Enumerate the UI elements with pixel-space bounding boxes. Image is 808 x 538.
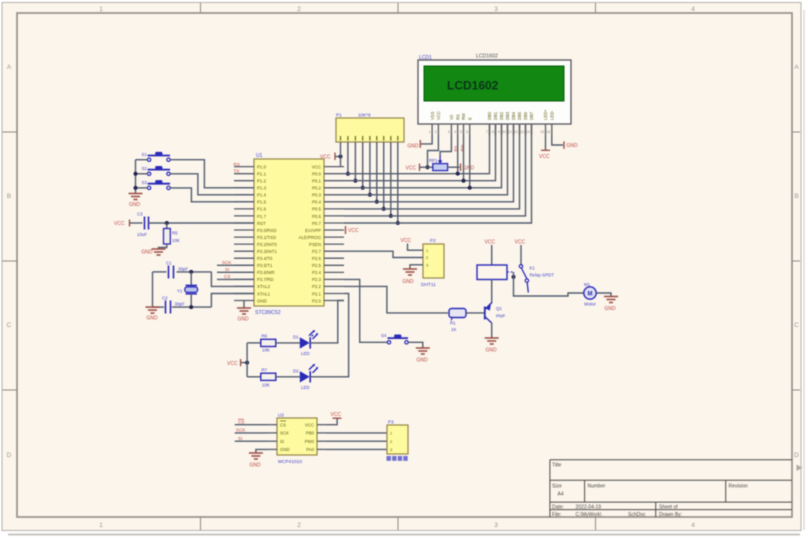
ground DHT11 xyxy=(402,269,417,285)
svg-text:DB7: DB7 xyxy=(529,111,534,120)
svg-text:Motor: Motor xyxy=(584,302,596,307)
svg-text:PA0: PA0 xyxy=(306,447,314,452)
svg-text:10uF: 10uF xyxy=(137,232,147,237)
LCD pin stubs and numbers xyxy=(429,124,552,135)
svg-text:P1.0: P1.0 xyxy=(257,164,267,169)
wire LCD VCC to pot rail xyxy=(428,135,439,167)
junction dot LED rail xyxy=(245,361,249,365)
wire buttons left rail to ground xyxy=(136,160,148,193)
svg-text:RW: RW xyxy=(461,113,466,120)
resistor R7 10K xyxy=(261,368,276,388)
resistor R5 10K xyxy=(164,223,180,244)
wire RW to P0.1 row xyxy=(463,135,465,181)
svg-text:3: 3 xyxy=(448,130,450,134)
wire coil to Q1 emitter xyxy=(491,280,493,304)
display module LCD1 body xyxy=(418,60,571,124)
svg-text:S2: S2 xyxy=(142,166,148,171)
svg-text:XTAL2: XTAL2 xyxy=(257,284,271,289)
wire motor to ground xyxy=(596,293,611,297)
wire D2 to P2.1 xyxy=(310,294,348,377)
svg-text:P1: P1 xyxy=(336,113,342,118)
svg-text:P3.0/RXD: P3.0/RXD xyxy=(257,228,277,233)
svg-text:PW0: PW0 xyxy=(305,439,315,444)
wire RS to P0.0 row xyxy=(457,135,459,174)
svg-text:DB3: DB3 xyxy=(505,111,510,120)
svg-text:C2: C2 xyxy=(162,296,168,301)
svg-text:SCK: SCK xyxy=(280,431,289,436)
wire LED rail xyxy=(246,343,248,377)
svg-text:P0.7: P0.7 xyxy=(312,221,322,226)
resistor R6 10K xyxy=(261,334,276,353)
svg-text:P3.2/INT0: P3.2/INT0 xyxy=(257,242,277,247)
svg-text:30pF: 30pF xyxy=(178,267,188,272)
svg-text:4: 4 xyxy=(454,130,456,134)
svg-text:GND: GND xyxy=(129,202,141,208)
svg-text:Size: Size xyxy=(552,484,562,490)
svg-text:P2.3: P2.3 xyxy=(312,277,322,282)
wire S3 to P1.5 xyxy=(170,188,254,202)
svg-text:C:\MyWork\: C:\MyWork\ xyxy=(576,512,603,518)
svg-text:GND: GND xyxy=(604,306,616,312)
svg-text:XTAL1: XTAL1 xyxy=(257,291,271,296)
digital pot U2 body xyxy=(277,418,317,455)
wire R1 to Q1 base xyxy=(466,312,485,314)
svg-text:10K: 10K xyxy=(262,383,270,388)
svg-text:P3.3/INT1: P3.3/INT1 xyxy=(257,249,277,254)
ground crystal rail xyxy=(146,307,160,321)
capacitor C3 10uF xyxy=(137,212,149,238)
power port VCC U2 xyxy=(333,417,342,419)
crystal Y1 xyxy=(177,272,198,307)
capacitor C1 30pF xyxy=(166,261,188,279)
svg-text:VSS: VSS xyxy=(430,111,435,120)
svg-text:GND: GND xyxy=(237,317,249,323)
svg-text:P1.7: P1.7 xyxy=(257,214,267,219)
wire E to P0.2 row xyxy=(469,135,471,188)
svg-text:4: 4 xyxy=(691,6,695,13)
svg-text:S3: S3 xyxy=(142,180,148,185)
relay switch K1 xyxy=(519,265,554,293)
svg-text:C: C xyxy=(794,322,799,329)
U1 left pins xyxy=(234,164,277,303)
sensor header P2 DHT11 body xyxy=(423,244,444,278)
wire VCC to U1 VCC pin xyxy=(340,157,342,167)
svg-text:GND: GND xyxy=(141,250,153,256)
wires pack pins to P0 bus xyxy=(348,142,398,223)
svg-text:VCC: VCC xyxy=(312,164,321,169)
junction dot buttons rail S2 xyxy=(134,172,138,176)
svg-text:2: 2 xyxy=(297,6,301,13)
svg-text:VCC: VCC xyxy=(406,165,417,171)
ground below R5 xyxy=(152,249,166,255)
svg-text:VCC: VCC xyxy=(485,240,496,246)
svg-text:DB6: DB6 xyxy=(523,111,528,120)
svg-text:3: 3 xyxy=(494,6,498,13)
svg-text:M1: M1 xyxy=(584,282,591,287)
svg-text:PSEN: PSEN xyxy=(309,242,321,247)
svg-text:A: A xyxy=(7,64,12,71)
svg-text:6: 6 xyxy=(466,130,468,134)
wire R7 to D2 xyxy=(276,376,300,378)
svg-text:Relay-SPDT: Relay-SPDT xyxy=(530,273,555,278)
potentiometer RP1 xyxy=(429,155,448,171)
svg-text:4: 4 xyxy=(691,522,695,529)
svg-text:R1: R1 xyxy=(450,321,456,326)
svg-text:P2: P2 xyxy=(430,238,436,243)
wire VCC to switch xyxy=(520,245,522,265)
svg-text:10K: 10K xyxy=(172,238,180,243)
svg-text:CS: CS xyxy=(280,423,286,428)
svg-text:P1.5: P1.5 xyxy=(257,200,267,205)
svg-text:9: 9 xyxy=(498,130,500,134)
wire XTAL1 connection xyxy=(211,294,254,308)
svg-text:VCC: VCC xyxy=(227,361,238,367)
svg-text:16: 16 xyxy=(546,130,550,134)
svg-text:R5: R5 xyxy=(172,231,178,236)
resistor pack P1 10K*9 xyxy=(336,118,404,142)
svg-text:SI: SI xyxy=(225,267,229,272)
junction dot VCC branch xyxy=(339,155,343,159)
svg-text:11: 11 xyxy=(508,130,512,134)
svg-text:GND: GND xyxy=(146,316,158,322)
svg-text:30pF: 30pF xyxy=(175,302,185,307)
svg-text:MCP41010: MCP41010 xyxy=(278,459,302,465)
svg-text:P0.1: P0.1 xyxy=(312,179,322,184)
svg-text:2022-04-19: 2022-04-19 xyxy=(576,505,602,511)
junction dot buttons rail S3 xyxy=(134,186,138,190)
svg-text:P0.6: P0.6 xyxy=(312,214,322,219)
wire VCC to DHT11 pin1 xyxy=(408,244,424,251)
op IC U1 STC89C52 body xyxy=(254,159,324,306)
svg-text:P2.1: P2.1 xyxy=(312,291,322,296)
wire C3 to RST xyxy=(149,222,255,224)
svg-text:DB2: DB2 xyxy=(499,111,504,120)
svg-text:SI: SI xyxy=(238,436,242,441)
svg-text:LCD1602: LCD1602 xyxy=(476,54,498,60)
LCD pin names xyxy=(430,109,555,120)
svg-text:EA/VPP: EA/VPP xyxy=(305,228,321,233)
svg-text:P1.3: P1.3 xyxy=(257,186,267,191)
svg-text:Y1: Y1 xyxy=(177,289,183,294)
svg-text:GND: GND xyxy=(463,165,475,171)
svg-text:P0.4: P0.4 xyxy=(312,200,322,205)
wire P2.7 to DHT11 pin2 xyxy=(344,251,423,257)
svg-text:P2.2: P2.2 xyxy=(312,284,322,289)
push button S2 xyxy=(142,166,171,176)
svg-text:VCC: VCC xyxy=(515,240,526,246)
svg-text:LED: LED xyxy=(301,385,310,390)
svg-text:SCK: SCK xyxy=(222,260,232,265)
svg-text:P0.2: P0.2 xyxy=(312,186,322,191)
svg-text:RP1: RP1 xyxy=(429,158,438,163)
svg-text:LED+: LED+ xyxy=(543,109,548,120)
wire XTAL2 connection xyxy=(211,272,254,287)
push button S1 xyxy=(142,152,171,162)
capacitor C2 30pF xyxy=(162,296,185,314)
junction dots P0 bus xyxy=(346,172,400,225)
U2 pins xyxy=(269,421,326,452)
wire DHT11 pin3 to ground xyxy=(410,265,423,269)
svg-text:P0.3: P0.3 xyxy=(312,193,322,198)
svg-text:2: 2 xyxy=(297,522,301,529)
svg-text:12: 12 xyxy=(514,130,518,134)
svg-text:GND: GND xyxy=(249,463,261,469)
svg-text:VCC: VCC xyxy=(436,111,441,120)
svg-text:VCC: VCC xyxy=(114,221,125,227)
wires U2 to header P3 xyxy=(325,433,387,450)
svg-text:GND: GND xyxy=(416,358,428,364)
svg-text:C3: C3 xyxy=(137,212,143,217)
svg-text:ALE/PROG: ALE/PROG xyxy=(299,235,322,240)
svg-text:8: 8 xyxy=(492,130,494,134)
svg-text:SCK: SCK xyxy=(236,428,246,433)
wire switch to motor xyxy=(514,272,585,296)
svg-text:P3.5/T1: P3.5/T1 xyxy=(257,263,273,268)
wire VCC to coil xyxy=(491,245,493,265)
wires P0.0-P0.7 to LCD DB0-DB7 xyxy=(344,125,532,223)
wire D1 to P2.0 xyxy=(310,301,344,343)
ground motor xyxy=(604,297,618,313)
wire S2 to P1.4 xyxy=(170,174,254,195)
svg-text:CS: CS xyxy=(238,419,244,424)
svg-text:VCC: VCC xyxy=(305,423,314,428)
LED D1 xyxy=(293,330,318,356)
svg-text:File:: File: xyxy=(552,512,561,518)
svg-text:P3.6/WR: P3.6/WR xyxy=(257,270,275,275)
svg-text:A4: A4 xyxy=(558,492,564,498)
svg-text:P3.4/T0: P3.4/T0 xyxy=(257,256,273,261)
LED D2 xyxy=(293,364,318,390)
svg-text:VCC: VCC xyxy=(331,412,342,418)
svg-text:DHT11: DHT11 xyxy=(421,282,436,288)
svg-text:P1.6: P1.6 xyxy=(257,207,267,212)
wire left rail crystal xyxy=(152,272,154,307)
svg-text:P2.5: P2.5 xyxy=(312,263,322,268)
svg-text:R7: R7 xyxy=(262,368,268,373)
svg-text:P3.7/RD: P3.7/RD xyxy=(257,277,274,282)
svg-text:DB5: DB5 xyxy=(517,111,522,120)
svg-text:U1: U1 xyxy=(256,153,263,159)
svg-text:1: 1 xyxy=(429,130,431,134)
header P3 body xyxy=(387,425,408,454)
ground S4 xyxy=(416,348,430,364)
relay dashed link xyxy=(507,271,514,273)
U1 right pins xyxy=(299,164,344,303)
junction dot pot rail xyxy=(426,165,430,169)
transistor Q1 PNP xyxy=(485,303,505,324)
junction dot crystal top xyxy=(189,270,193,274)
svg-text:P0.0: P0.0 xyxy=(312,172,322,177)
svg-text:D2: D2 xyxy=(293,369,299,374)
svg-text:D: D xyxy=(7,452,12,459)
svg-text:V0: V0 xyxy=(449,114,454,120)
svg-text:1: 1 xyxy=(99,6,103,13)
wire S1 to P1.3 xyxy=(170,160,254,188)
svg-text:7: 7 xyxy=(486,130,488,134)
svg-text:DB4: DB4 xyxy=(511,111,516,120)
svg-text:CS: CS xyxy=(224,274,230,279)
svg-text:VCC: VCC xyxy=(401,238,412,244)
svg-text:S4: S4 xyxy=(381,333,387,338)
svg-text:VCC: VCC xyxy=(320,155,331,161)
svg-text:GND: GND xyxy=(567,143,579,149)
svg-text:Revision: Revision xyxy=(729,484,748,490)
svg-text:P2.0: P2.0 xyxy=(312,298,322,303)
svg-text:P2.6: P2.6 xyxy=(312,256,322,261)
title block xyxy=(550,460,792,518)
svg-text:10: 10 xyxy=(502,130,506,134)
svg-text:B: B xyxy=(7,193,11,200)
svg-text:LED: LED xyxy=(301,351,310,356)
svg-text:VCC: VCC xyxy=(539,154,550,160)
svg-text:14: 14 xyxy=(526,130,530,134)
svg-text:K1: K1 xyxy=(530,266,536,271)
svg-text:GND: GND xyxy=(402,279,414,285)
svg-text:GND: GND xyxy=(485,348,497,354)
svg-text:10K: 10K xyxy=(262,348,270,353)
wire pack pin1 to VCC xyxy=(340,142,342,157)
svg-text:RS: RS xyxy=(455,114,460,120)
wire LED- to ground port xyxy=(552,135,563,145)
power port VCC at EA/VPP xyxy=(345,226,347,234)
svg-text:Sheet of: Sheet of xyxy=(659,505,678,511)
wire LED+ to VCC port xyxy=(545,135,547,150)
wire U2 GND xyxy=(256,449,269,453)
svg-text:U2: U2 xyxy=(278,413,284,418)
svg-text:GND: GND xyxy=(280,447,290,452)
svg-text:DB1: DB1 xyxy=(493,111,498,120)
junction node RST xyxy=(165,221,169,225)
push button S4 xyxy=(381,333,408,344)
resistor R1 1K xyxy=(449,309,466,333)
wire R5 to ground xyxy=(159,244,167,249)
svg-text:STC89C52: STC89C52 xyxy=(255,310,281,316)
svg-text:P2.4: P2.4 xyxy=(312,270,322,275)
svg-text:5: 5 xyxy=(460,130,462,134)
svg-text:1K: 1K xyxy=(451,327,456,332)
wire crystal bottom rail xyxy=(153,306,165,308)
svg-text:M: M xyxy=(588,292,593,298)
motor M1 xyxy=(584,282,597,307)
junction dot crystal bottom xyxy=(189,305,193,309)
svg-text:Title: Title xyxy=(552,463,561,469)
svg-text:DB0: DB0 xyxy=(487,111,492,120)
svg-text:B: B xyxy=(794,193,798,200)
svg-text:LED-: LED- xyxy=(550,110,555,120)
ground Q1 xyxy=(485,338,499,354)
svg-text:RX: RX xyxy=(234,162,240,167)
svg-text:D1: D1 xyxy=(293,335,299,340)
wire LCD VSS to ground port xyxy=(421,135,432,144)
header P3 caption squares xyxy=(387,456,408,461)
svg-text:Date:: Date: xyxy=(552,505,564,511)
svg-text:A: A xyxy=(794,64,799,71)
svg-text:S1: S1 xyxy=(142,152,148,157)
power port VCC reset xyxy=(114,220,130,228)
svg-text:2: 2 xyxy=(435,130,437,134)
svg-text:P2.7: P2.7 xyxy=(312,249,322,254)
svg-text:P1.2: P1.2 xyxy=(257,179,267,184)
svg-text:P1.4: P1.4 xyxy=(257,193,267,198)
push button S3 xyxy=(142,180,171,189)
svg-text:Drawn By:: Drawn By: xyxy=(659,512,682,518)
wire R6 to D1 xyxy=(276,342,300,344)
svg-text:R6: R6 xyxy=(262,334,268,339)
svg-text:P3.1/TXD: P3.1/TXD xyxy=(257,235,276,240)
svg-text:LCD1: LCD1 xyxy=(419,55,432,61)
svg-text:SchDoc: SchDoc xyxy=(628,512,646,518)
wire V0 to pot wiper xyxy=(440,135,451,156)
svg-text:P1.1: P1.1 xyxy=(257,172,267,177)
ground U2 xyxy=(249,453,263,469)
svg-text:E: E xyxy=(467,117,472,120)
svg-text:VCC: VCC xyxy=(348,228,359,234)
svg-text:P0.5: P0.5 xyxy=(312,207,322,212)
svg-text:C: C xyxy=(7,322,12,329)
svg-text:GND: GND xyxy=(257,298,267,303)
svg-text:15: 15 xyxy=(540,130,544,134)
wire P2.2 to base resistor xyxy=(344,286,448,313)
wire Q1 collector to ground xyxy=(491,323,493,338)
svg-text:LCD1602: LCD1602 xyxy=(447,79,499,93)
svg-text:P3: P3 xyxy=(388,420,394,425)
wire S4 to ground xyxy=(408,342,423,348)
power port GND at VSS xyxy=(419,140,421,148)
svg-text:GND: GND xyxy=(407,144,419,150)
svg-text:Number: Number xyxy=(588,484,606,490)
svg-text:D: D xyxy=(794,452,799,459)
svg-text:RST: RST xyxy=(257,221,266,226)
power port VCC top xyxy=(320,153,335,161)
LCD green screen xyxy=(424,66,564,101)
wire U2 VCC to port xyxy=(325,419,337,425)
wire crystal top rail xyxy=(153,271,167,273)
svg-text:SI: SI xyxy=(280,439,284,444)
svg-text:PB0: PB0 xyxy=(306,431,315,436)
wire pot right to ground port xyxy=(448,166,460,168)
svg-text:13: 13 xyxy=(520,130,524,134)
svg-text:3: 3 xyxy=(494,522,498,529)
svg-text:C1: C1 xyxy=(166,261,172,266)
svg-text:Q1: Q1 xyxy=(496,306,502,311)
junction dot switch pole xyxy=(512,275,516,279)
wire P2.3 to button S4 xyxy=(344,279,387,342)
ground below buttons xyxy=(129,194,143,209)
ground at U1 GND pin xyxy=(237,301,251,323)
svg-text:TX: TX xyxy=(234,169,240,174)
svg-text:PNP: PNP xyxy=(496,314,505,319)
svg-text:10K*9: 10K*9 xyxy=(358,113,371,118)
relay coil xyxy=(477,265,507,280)
svg-text:1: 1 xyxy=(99,522,103,529)
